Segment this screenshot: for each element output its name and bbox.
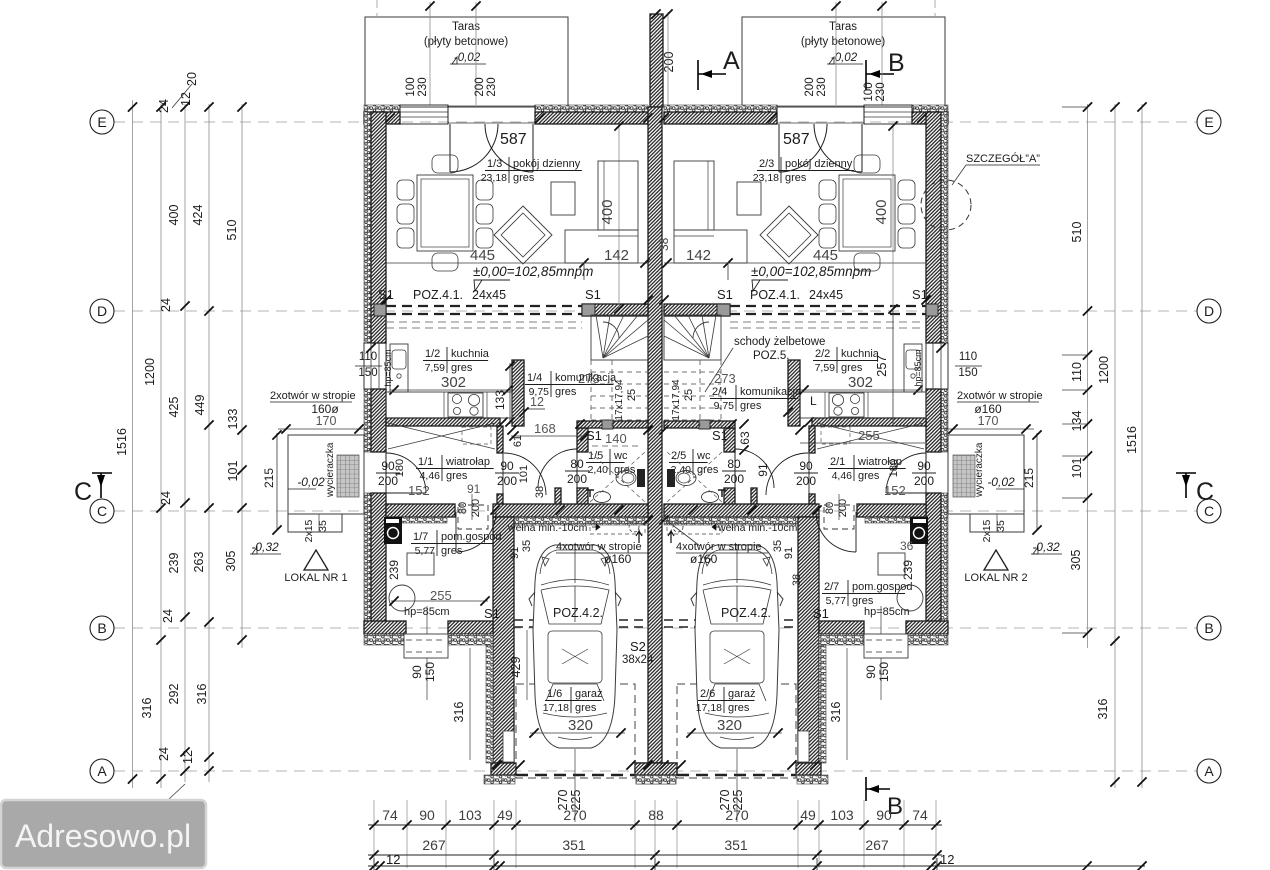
svg-text:400: 400 [167, 205, 181, 226]
svg-text:25: 25 [683, 389, 695, 401]
washbasin unit2 [702, 492, 719, 503]
cabinet unit2 [878, 553, 905, 575]
dining table [417, 175, 473, 251]
car body [695, 545, 779, 748]
svg-text:400: 400 [599, 199, 616, 224]
svg-text:49: 49 [800, 807, 816, 823]
svg-text:110: 110 [359, 351, 377, 363]
svg-text:B: B [1204, 620, 1213, 636]
svg-text:hp=85cm: hp=85cm [383, 349, 393, 386]
vestibule side wall unit1 [497, 426, 503, 453]
kitchen window unit1 [364, 343, 386, 389]
svg-text:239: 239 [167, 553, 181, 574]
bottom dim row 1 [368, 824, 942, 826]
car body [533, 545, 617, 748]
bottom row3 vertical stubs [373, 858, 375, 870]
svg-text:1516: 1516 [115, 428, 129, 456]
car headlight marks [704, 557, 711, 566]
svg-text:152: 152 [408, 483, 430, 498]
top exterior wall unit1 solid segment [535, 112, 648, 124]
axis stub dashed top right [934, 0, 936, 17]
dining chairs [397, 180, 414, 200]
svg-text:150: 150 [877, 662, 891, 682]
vestibule bottom wall unit1 [386, 504, 455, 517]
wardrobe cross unit2 [817, 423, 924, 449]
svg-text:150: 150 [358, 367, 377, 379]
svg-text:2x15: 2x15 [981, 519, 993, 542]
svg-text:gres: gres [451, 362, 473, 374]
terrace unit 2 outline [742, 17, 945, 107]
svg-text:61: 61 [512, 435, 524, 447]
svg-text:110: 110 [1070, 362, 1084, 382]
svg-text:215: 215 [262, 468, 276, 488]
garage door jamb recess unit2 [798, 731, 809, 762]
svg-text:S1: S1 [912, 287, 928, 302]
svg-text:91: 91 [509, 547, 521, 559]
svg-text:1/7: 1/7 [413, 531, 428, 543]
svg-text:215: 215 [1022, 468, 1036, 488]
section marker C right [1176, 472, 1196, 474]
car roof [548, 631, 602, 683]
svg-text:257: 257 [874, 355, 889, 377]
wc side wall unit2 [724, 428, 735, 452]
stair dashed lower flight unit2 [664, 371, 721, 373]
svg-text:302: 302 [441, 374, 466, 391]
svg-text:200: 200 [724, 472, 744, 486]
corridor niche stub unit2 [751, 488, 757, 507]
coffee table unit1 [551, 182, 575, 215]
svg-text:POZ.4.1.: POZ.4.1. [750, 288, 800, 302]
grid bubble D left [90, 299, 114, 323]
svg-text:1/4: 1/4 [527, 372, 542, 384]
corridor door unit1 [502, 453, 504, 495]
svg-text:SZCZEGÓŁ”A”: SZCZEGÓŁ”A” [966, 152, 1040, 165]
svg-text:Adresowo.pl: Adresowo.pl [15, 818, 191, 854]
svg-text:-0,02: -0,02 [987, 475, 1015, 489]
kitchen side wall unit2 [788, 360, 800, 426]
svg-text:POZ.5.: POZ.5. [753, 350, 789, 362]
svg-text:180: 180 [888, 459, 900, 477]
svg-text:429: 429 [509, 657, 523, 678]
svg-text:wełna min.-10cm: wełna min.-10cm [717, 522, 798, 534]
entry porch outline unit1 [288, 435, 364, 514]
svg-text:2,40: 2,40 [588, 464, 609, 476]
svg-text:A: A [723, 47, 740, 75]
svg-text:4,46: 4,46 [832, 470, 853, 482]
svg-text:ø160: ø160 [690, 552, 718, 566]
watermark leader line [168, 784, 185, 800]
svg-text:gres: gres [740, 400, 762, 412]
garage ceiling dashed rect unit1 [516, 684, 635, 778]
top exterior wall unit1 corner [364, 112, 400, 124]
vestibule bottom wall unit2 [857, 504, 926, 517]
svg-text:7,59: 7,59 [815, 362, 836, 374]
section marker A top [697, 60, 699, 90]
svg-text:90: 90 [381, 459, 395, 473]
svg-text:103: 103 [830, 807, 854, 823]
grid axis dashed lines E D C B A [114, 121, 1197, 123]
svg-text:POZ.4.2.: POZ.4.2. [721, 606, 771, 620]
svg-text:170: 170 [316, 414, 337, 428]
grid bubble C right [1197, 499, 1221, 523]
svg-text:425: 425 [167, 397, 181, 418]
floor drain unit2 [897, 585, 923, 611]
kitchen counter unit2 [800, 392, 926, 418]
svg-text:garaż: garaż [575, 688, 603, 700]
svg-text:12: 12 [179, 92, 193, 106]
car bumper line [540, 550, 610, 574]
svg-text:35: 35 [521, 540, 533, 552]
svg-text:80: 80 [824, 502, 836, 514]
car center line unit2 [736, 749, 738, 822]
svg-text:D: D [1204, 303, 1214, 319]
left dimension chain lines [132, 100, 134, 788]
svg-text:2xotwór w stropie: 2xotwór w stropie [270, 390, 356, 402]
svg-text:pokój dzienny: pokój dzienny [513, 158, 581, 170]
ceiling hole dashed circles [629, 522, 639, 532]
svg-text:A: A [97, 763, 107, 779]
kitchen bottom wall unit1 [386, 418, 500, 426]
svg-text:88: 88 [648, 807, 664, 823]
car rear window [708, 684, 766, 701]
grid bubble A left [90, 759, 114, 783]
corridor niche stub unit1 [555, 488, 561, 507]
svg-text:90: 90 [500, 459, 514, 473]
svg-text:1200: 1200 [143, 358, 157, 386]
D-axis grey anchor left wall [374, 304, 386, 316]
svg-text:C: C [74, 478, 92, 506]
svg-text:L: L [810, 394, 817, 408]
svg-text:-0,02: -0,02 [831, 52, 858, 64]
svg-text:2/1: 2/1 [830, 456, 845, 468]
door mat unit1 [337, 455, 359, 497]
svg-text:270: 270 [725, 807, 749, 823]
svg-text:101: 101 [226, 461, 240, 482]
sofa unit2 [674, 161, 714, 230]
vertical dim 400 unit2 [892, 124, 894, 311]
dining table [839, 175, 895, 251]
svg-text:±0,00=102,85mnpm: ±0,00=102,85mnpm [473, 264, 593, 279]
svg-text:-0,32: -0,32 [251, 540, 279, 554]
svg-text:230: 230 [816, 77, 828, 96]
bottom dim row 2 [368, 854, 942, 856]
svg-text:S1: S1 [813, 606, 829, 621]
svg-text:400: 400 [873, 199, 890, 224]
car roof [710, 631, 764, 683]
right dimension chain lines [1087, 104, 1089, 648]
svg-text:133: 133 [226, 409, 240, 430]
right dim stub lines at ticks [1062, 106, 1088, 108]
car rear window [546, 684, 604, 701]
utility room bottom wall unit2 [906, 621, 948, 634]
svg-text:wycieraczka: wycieraczka [325, 442, 336, 498]
svg-text:351: 351 [562, 837, 586, 853]
svg-text:gres: gres [697, 464, 719, 476]
dashed threshold unit2 [824, 505, 854, 529]
svg-text:230: 230 [417, 77, 429, 96]
svg-text:S1: S1 [378, 287, 394, 302]
car center line unit1 [574, 749, 576, 822]
svg-text:133: 133 [493, 390, 507, 410]
svg-text:267: 267 [422, 837, 446, 853]
svg-text:316: 316 [140, 698, 154, 719]
svg-text:302: 302 [848, 374, 873, 391]
svg-text:267: 267 [865, 837, 889, 853]
toilet unit2 [667, 469, 675, 487]
svg-text:C: C [97, 503, 107, 519]
svg-text:74: 74 [382, 807, 398, 823]
svg-text:36: 36 [900, 539, 914, 553]
svg-text:gres: gres [841, 362, 863, 374]
vestibule side wall unit2 [809, 426, 815, 453]
terrace door threshold unit1 [448, 105, 535, 107]
coffee table unit2 [737, 182, 761, 215]
svg-text:E: E [1204, 114, 1213, 130]
svg-text:24: 24 [159, 491, 173, 505]
garage front corner wall unit2 [796, 763, 821, 775]
svg-text:gres: gres [446, 470, 468, 482]
svg-text:2/4: 2/4 [712, 386, 727, 398]
svg-text:20: 20 [185, 72, 199, 86]
svg-text:305: 305 [224, 551, 238, 572]
left exterior wall core lower [371, 493, 386, 634]
svg-text:2/7: 2/7 [824, 581, 839, 593]
svg-text:80: 80 [457, 502, 469, 514]
garage top wall unit2 [664, 504, 819, 517]
svg-text:49: 49 [497, 807, 513, 823]
svg-text:100: 100 [405, 77, 417, 96]
svg-text:(płyty betonowe): (płyty betonowe) [801, 36, 886, 48]
svg-text:D: D [97, 303, 107, 319]
garage ceiling dashed rect unit2 [677, 684, 796, 778]
svg-text:12: 12 [386, 852, 400, 867]
svg-text:510: 510 [1070, 222, 1084, 243]
terrace unit 1 outline [365, 17, 568, 107]
rug unit2 [760, 206, 818, 264]
svg-text:90: 90 [799, 459, 813, 473]
floor drain unit1 [389, 585, 415, 611]
bottom extension lines [373, 800, 375, 868]
svg-text:587: 587 [500, 131, 527, 148]
svg-text:24x45: 24x45 [809, 288, 843, 302]
garage front center wall unit1 [635, 763, 677, 775]
garage door jamb recess unit1 [503, 731, 514, 762]
left exterior wall core mid [371, 389, 386, 452]
wc side wall unit1 [577, 428, 588, 452]
svg-text:wiatrołap: wiatrołap [445, 456, 490, 468]
svg-text:320: 320 [717, 717, 742, 734]
lokal nr 1 triangle [304, 550, 328, 570]
left exterior wall insulation [364, 112, 371, 343]
svg-text:180: 180 [394, 459, 406, 477]
svg-text:424: 424 [191, 205, 205, 226]
garage side wall unit2 [798, 517, 819, 763]
garage side wall unit1 [493, 517, 514, 763]
svg-text:komunikacja: komunikacja [740, 386, 802, 398]
D-axis beam solid over stair unit1 [582, 304, 648, 316]
svg-text:gres: gres [513, 172, 535, 184]
svg-text:23,18: 23,18 [481, 172, 507, 184]
svg-text:230: 230 [486, 77, 498, 96]
svg-text:1516: 1516 [1125, 426, 1139, 454]
svg-text:351: 351 [724, 837, 748, 853]
grid bubble A right [1197, 759, 1221, 783]
cabinet unit1 [407, 553, 434, 575]
svg-text:587: 587 [783, 131, 810, 148]
svg-text:wc: wc [613, 450, 628, 462]
insulation dashed box unit2 [667, 521, 722, 534]
beam dashed POZ42 unit2 [664, 619, 798, 621]
svg-text:90: 90 [410, 665, 424, 679]
svg-text:449: 449 [193, 395, 207, 416]
porch width dim 215 unit2 [1036, 433, 1038, 531]
svg-text:LOKAL NR 2: LOKAL NR 2 [964, 572, 1027, 584]
svg-text:kuchnia: kuchnia [451, 348, 490, 360]
svg-text:POZ.4.1.: POZ.4.1. [413, 288, 463, 302]
lokal nr 2 triangle [984, 550, 1008, 570]
grid bubble E right [1197, 110, 1221, 134]
wall junction ticks [498, 417, 507, 426]
svg-text:230: 230 [875, 82, 887, 101]
left dimension ticks [128, 102, 137, 111]
D-axis dashed beam lines unit2 [730, 305, 926, 307]
svg-text:hp=85cm: hp=85cm [913, 349, 923, 386]
svg-text:4,46: 4,46 [420, 470, 441, 482]
svg-text:200: 200 [914, 474, 934, 488]
terrace double door unit1 [447, 105, 449, 124]
svg-text:101: 101 [1070, 458, 1084, 479]
svg-text:24: 24 [157, 747, 171, 761]
svg-text:110: 110 [959, 351, 977, 363]
svg-text:134: 134 [1070, 411, 1084, 432]
svg-text:35: 35 [772, 540, 784, 552]
section marker C left [92, 472, 112, 474]
svg-text:-0,02: -0,02 [297, 475, 325, 489]
utility door unit1 [455, 512, 457, 552]
washbasin unit1 [594, 492, 611, 503]
svg-text:91: 91 [467, 482, 481, 496]
washing machine unit2 [910, 517, 928, 544]
stair flight unit1 [591, 315, 648, 360]
svg-text:292: 292 [167, 684, 181, 705]
car headlight marks [542, 557, 549, 566]
garage door unit2 [677, 774, 796, 776]
svg-text:B: B [888, 49, 905, 77]
svg-text:80: 80 [570, 457, 584, 471]
svg-text:gres: gres [858, 470, 880, 482]
svg-text:200: 200 [497, 474, 517, 488]
svg-text:12: 12 [940, 852, 954, 867]
top exterior wall unit2 solid segment [664, 112, 777, 124]
wc top wall unit2 [664, 421, 735, 428]
svg-text:12: 12 [181, 750, 195, 764]
svg-text:1/1: 1/1 [418, 456, 433, 468]
svg-text:S1: S1 [585, 287, 601, 302]
D-axis beam solid over stair unit2 [664, 304, 730, 316]
svg-text:273: 273 [714, 371, 736, 386]
right dimension ticks [1083, 102, 1092, 111]
svg-text:200: 200 [567, 472, 587, 486]
grid bubble B right [1197, 616, 1221, 640]
svg-text:gres: gres [441, 545, 463, 557]
svg-text:-0,32: -0,32 [1032, 540, 1060, 554]
svg-text:200: 200 [662, 52, 676, 73]
top exterior wall insulation [364, 105, 400, 112]
svg-text:1/2: 1/2 [425, 348, 440, 360]
svg-text:POZ.4.2.: POZ.4.2. [553, 606, 603, 620]
svg-text:E: E [97, 114, 106, 130]
svg-text:24: 24 [157, 99, 171, 113]
top exterior wall unit2 corner [912, 112, 948, 124]
car windshield [703, 586, 771, 624]
car windshield [541, 586, 609, 624]
corridor door unit2 [808, 453, 810, 495]
kitchen sink unit1 [390, 344, 408, 392]
svg-text:24x45: 24x45 [472, 288, 506, 302]
svg-text:hp=85cm: hp=85cm [864, 606, 910, 618]
left 20 leader line [172, 84, 192, 108]
section marker B bottom [865, 777, 867, 801]
svg-text:gres: gres [728, 702, 750, 714]
utility room bottom wall unit1 [364, 621, 406, 634]
svg-text:305: 305 [1069, 550, 1083, 571]
outside step unit2 [864, 634, 908, 658]
wc dashed diagonals unit1 [590, 452, 645, 502]
svg-text:140: 140 [605, 431, 627, 446]
svg-text:263: 263 [192, 552, 206, 573]
grid bubble E left [90, 110, 114, 134]
svg-text:ø160: ø160 [604, 552, 632, 566]
svg-text:142: 142 [686, 247, 711, 264]
axis stub dashed top left [376, 0, 378, 17]
terrace double door unit2 [776, 105, 778, 124]
svg-text:200: 200 [474, 77, 486, 96]
svg-text:1/6: 1/6 [547, 688, 562, 700]
svg-text:S1: S1 [712, 428, 728, 443]
svg-text:168: 168 [534, 421, 556, 436]
car mirrors [529, 592, 535, 606]
svg-text:150: 150 [423, 662, 437, 682]
washing machine unit1 [384, 517, 402, 544]
D-axis grey anchor right wall [926, 304, 938, 316]
svg-text:445: 445 [813, 247, 838, 264]
entry porch step unit2 [970, 514, 1024, 532]
sofa unit1 [598, 161, 638, 230]
section marker B top [865, 60, 867, 90]
svg-text:200: 200 [804, 77, 816, 96]
svg-text:2x15: 2x15 [303, 519, 315, 542]
svg-text:90: 90 [419, 807, 435, 823]
svg-text:239: 239 [387, 560, 401, 580]
rug unit1 [494, 206, 552, 264]
garage door edge ticks [515, 760, 524, 769]
svg-text:152: 152 [884, 483, 906, 498]
kitchen stove unit1 [448, 393, 483, 417]
svg-text:142: 142 [604, 247, 629, 264]
garage front center wall unit2 [635, 763, 677, 775]
beam dashed POZ42 unit1 [514, 619, 648, 621]
svg-text:1/3: 1/3 [487, 158, 502, 170]
svg-text:316: 316 [1096, 699, 1110, 720]
svg-text:17,18: 17,18 [696, 702, 722, 714]
svg-text:wełna min.-10cm: wełna min.-10cm [507, 522, 588, 534]
svg-text:2xotwór w stropie: 2xotwór w stropie [957, 390, 1043, 402]
left exterior wall core upper [371, 112, 386, 343]
svg-text:LOKAL NR 1: LOKAL NR 1 [284, 572, 347, 584]
svg-text:90: 90 [876, 807, 892, 823]
svg-text:gres: gres [555, 386, 577, 398]
wardrobe cross unit1 [388, 423, 495, 449]
